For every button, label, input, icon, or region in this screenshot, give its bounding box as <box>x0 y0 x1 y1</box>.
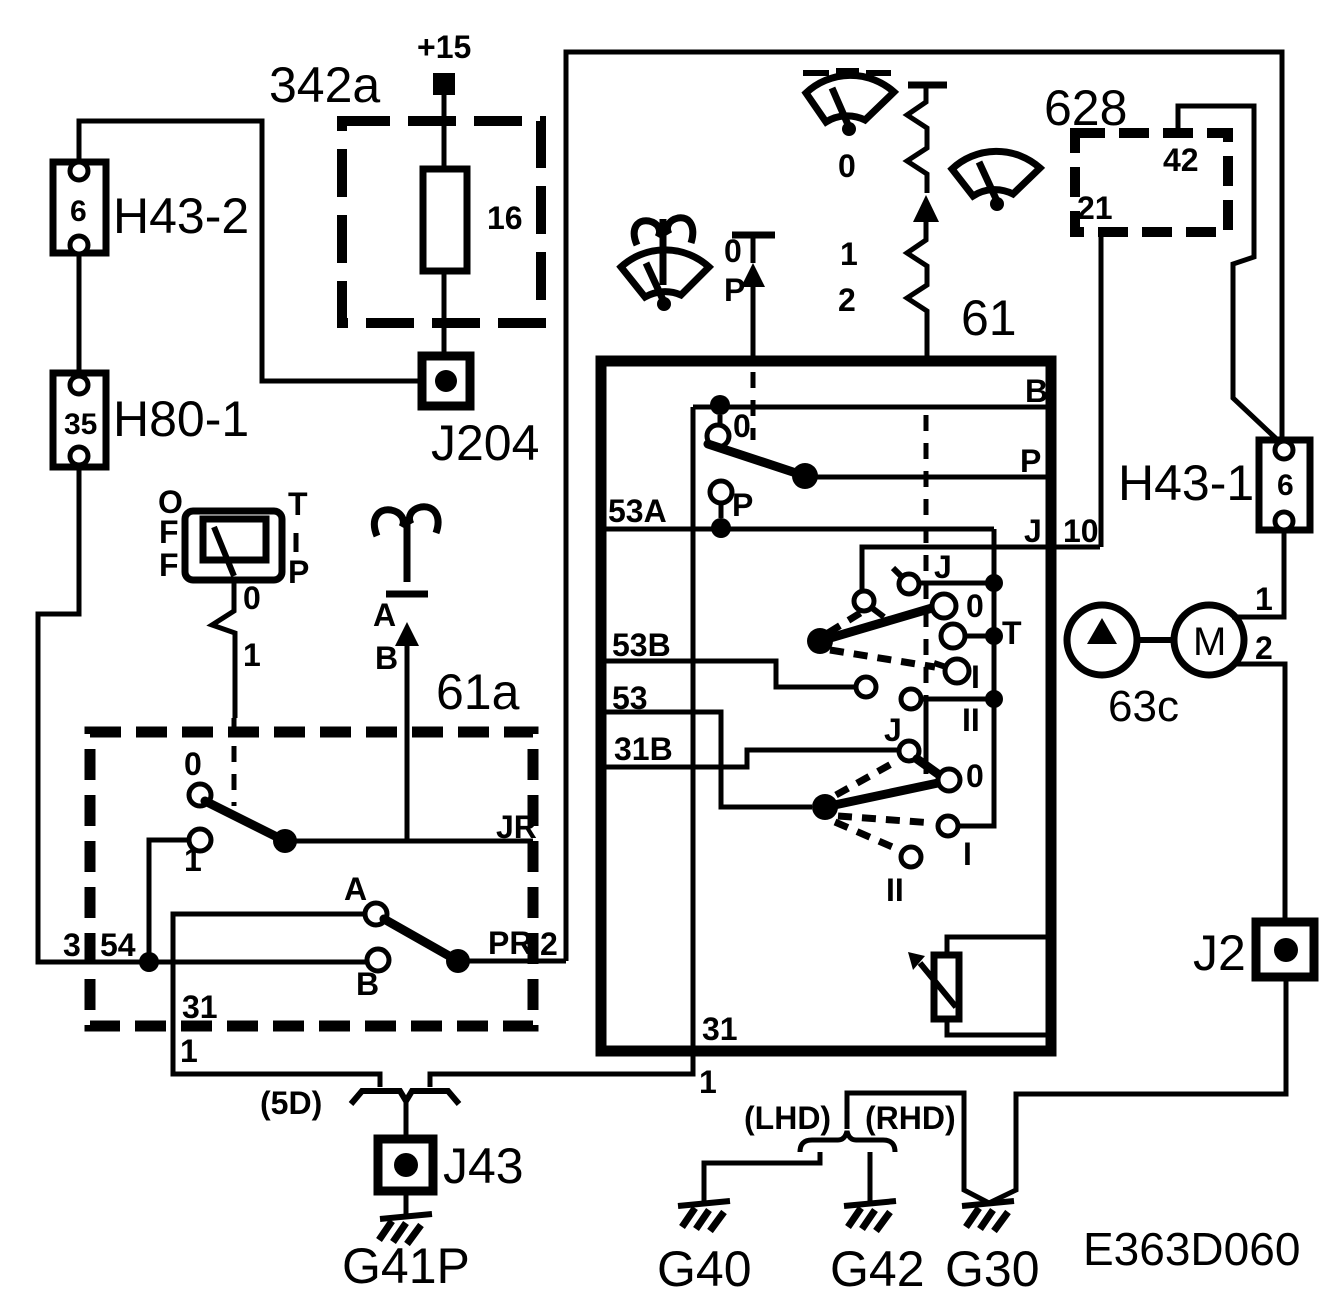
svg-text:P: P <box>288 554 309 590</box>
61a lower switch contact A <box>365 903 387 925</box>
row 53A <box>606 527 994 532</box>
61a upper switch contact 1 <box>189 829 211 851</box>
svg-text:2: 2 <box>838 282 856 318</box>
inline connector (5D) <box>260 1085 459 1121</box>
svg-text:342a: 342a <box>269 57 380 113</box>
fuse 16 <box>423 169 523 271</box>
dashed link into 61a <box>232 718 237 806</box>
lower switch pivot <box>812 794 838 820</box>
svg-text:PR: PR <box>488 925 532 961</box>
upper switch contact 0 <box>932 594 956 618</box>
wire H43-2 to H80-1 <box>77 253 82 373</box>
svg-text:G40: G40 <box>657 1241 752 1297</box>
svg-text:(RHD): (RHD) <box>865 1100 956 1136</box>
row B <box>693 405 1046 410</box>
row J to terminal 10 <box>862 547 1100 591</box>
upper switch contact I <box>945 659 969 683</box>
svg-text:0: 0 <box>966 588 984 624</box>
upper switch contact T <box>941 624 965 648</box>
park position line P with arrow <box>724 233 775 440</box>
connector H43-2 <box>53 162 249 254</box>
two-speed wiper symbol with dashes <box>803 71 894 318</box>
park switch contact 0 <box>707 425 729 447</box>
ground G41P <box>342 1214 470 1294</box>
lower switch lever to 0 <box>825 783 938 807</box>
svg-text:I: I <box>963 836 972 872</box>
row 53B <box>606 661 856 687</box>
svg-text:F: F <box>159 514 179 550</box>
relay box 61a <box>90 664 533 1026</box>
wire fuse to J204 <box>442 271 447 356</box>
pin 31 column <box>430 407 693 1087</box>
svg-text:J204: J204 <box>431 415 539 471</box>
lower switch dashed position toward I <box>838 816 933 823</box>
upper switch contact J <box>899 574 919 594</box>
svg-text:J43: J43 <box>443 1138 524 1194</box>
row 53 <box>606 712 812 807</box>
wire brace to ground G30 <box>847 1093 989 1203</box>
wire H80-1 down to node 54 row <box>38 467 140 962</box>
ground G42 <box>830 1201 925 1297</box>
61a wire contact1 to node 54 <box>149 840 189 962</box>
svg-text:JR: JR <box>496 809 537 845</box>
svg-text:21: 21 <box>1077 190 1113 226</box>
lower switch contact II <box>901 847 921 867</box>
61a lower switch contact B <box>367 949 389 971</box>
stalk switch OFF/T/P <box>158 484 309 590</box>
svg-text:0: 0 <box>724 233 742 269</box>
park switch B junction <box>710 395 730 415</box>
washer valve symbol A/B <box>373 507 438 841</box>
relay box 628 <box>1044 80 1228 232</box>
row P <box>805 475 1046 480</box>
61a JR line <box>285 839 533 844</box>
svg-text:A: A <box>373 597 396 633</box>
wire H43-1 to motor pin 1 <box>1232 530 1284 617</box>
single wiper symbol <box>952 151 1040 211</box>
park switch lever <box>708 444 796 473</box>
svg-text:6: 6 <box>1277 469 1294 502</box>
svg-text:B: B <box>375 640 398 676</box>
svg-text:A: A <box>344 871 367 907</box>
svg-text:E363D060: E363D060 <box>1083 1223 1300 1275</box>
svg-text:(LHD): (LHD) <box>744 1100 831 1136</box>
svg-text:B: B <box>356 966 379 1002</box>
upper switch dashed position toward I <box>830 650 935 667</box>
upper rotary switch wash/wipe selector <box>807 549 1022 738</box>
svg-text:53A: 53A <box>608 493 667 529</box>
lower switch contact J <box>899 741 919 761</box>
svg-text:T: T <box>1002 615 1022 651</box>
wire motor pin 2 to J2 <box>1232 664 1285 924</box>
svg-text:35: 35 <box>64 408 97 441</box>
svg-text:P: P <box>724 272 745 308</box>
svg-text:2: 2 <box>540 926 558 962</box>
svg-text:31: 31 <box>702 1011 738 1047</box>
contact rail <box>958 529 994 826</box>
61a lower lever to PR <box>384 919 458 961</box>
svg-text:II: II <box>886 872 904 908</box>
lower switch dashed position toward II <box>835 822 897 849</box>
61a PR output 2 <box>458 959 566 964</box>
61a row 54 line <box>38 960 367 965</box>
upper switch contact to J row <box>854 591 874 611</box>
wire H43-2 pin to J204 <box>79 121 422 381</box>
svg-text:0: 0 <box>966 758 984 794</box>
svg-text:P: P <box>1020 443 1041 479</box>
svg-text:J2: J2 <box>1193 925 1246 981</box>
svg-text:0: 0 <box>243 580 261 616</box>
lower switch contact I <box>938 816 958 836</box>
svg-text:628: 628 <box>1044 80 1127 136</box>
upper switch contact II <box>901 689 921 709</box>
svg-text:31B: 31B <box>614 731 673 767</box>
svg-text:J: J <box>1024 513 1042 549</box>
svg-text:F: F <box>159 547 179 583</box>
svg-text:0: 0 <box>838 148 856 184</box>
connector H43-1 <box>1118 440 1310 530</box>
svg-text:63c: 63c <box>1108 682 1179 731</box>
svg-text:1: 1 <box>1255 581 1273 617</box>
svg-text:1: 1 <box>243 637 261 673</box>
row 31B <box>606 750 898 767</box>
svg-text:1: 1 <box>184 842 202 878</box>
svg-text:0: 0 <box>733 408 751 444</box>
svg-text:P: P <box>732 487 753 523</box>
svg-text:J: J <box>884 712 902 748</box>
ground G40 <box>657 1201 752 1297</box>
upper switch pivot <box>807 628 833 654</box>
lower switch contact 0 <box>938 769 960 791</box>
svg-text:T: T <box>288 486 308 522</box>
svg-text:10: 10 <box>1063 513 1099 549</box>
svg-text:B: B <box>1025 373 1048 409</box>
svg-text:G30: G30 <box>945 1241 1040 1297</box>
svg-text:H43-2: H43-2 <box>113 188 249 244</box>
svg-text:16: 16 <box>487 200 523 236</box>
svg-text:53B: 53B <box>612 627 671 663</box>
svg-text:H80-1: H80-1 <box>113 391 249 447</box>
svg-text:1: 1 <box>840 236 858 272</box>
wiper switch unit box 61 <box>601 361 1051 1051</box>
wiper motor feed line with resistor and arrow <box>907 85 947 774</box>
svg-text:2: 2 <box>1255 630 1273 666</box>
svg-text:II: II <box>962 702 980 738</box>
svg-text:1: 1 <box>180 1033 198 1069</box>
junction J43 <box>378 1138 524 1194</box>
wire 2 up and across top to H43-1 <box>566 52 1282 961</box>
svg-text:I: I <box>971 659 980 695</box>
svg-text:54: 54 <box>100 927 136 963</box>
svg-text:J: J <box>934 549 952 585</box>
wash/wipe symbol <box>621 218 709 311</box>
wire +15 to fuse <box>442 95 447 169</box>
connector H80-1 <box>53 373 249 467</box>
svg-text:(5D): (5D) <box>260 1085 322 1121</box>
svg-text:G41P: G41P <box>342 1238 470 1294</box>
fuse box 342a <box>269 57 541 323</box>
junction J204 <box>422 356 539 471</box>
svg-text:3: 3 <box>63 927 81 963</box>
wire J2 to ground G30 <box>989 974 1286 1203</box>
svg-text:31: 31 <box>182 989 218 1025</box>
ground G30 <box>945 1201 1040 1297</box>
61a upper switch contact 0 <box>189 784 211 806</box>
svg-text:H43-1: H43-1 <box>1118 455 1254 511</box>
svg-text:1: 1 <box>699 1064 717 1100</box>
svg-text:61a: 61a <box>436 664 520 720</box>
svg-text:M: M <box>1193 620 1226 664</box>
61a A row line <box>173 914 380 1087</box>
lower switch dashed position toward J <box>836 763 893 795</box>
rheostat <box>908 937 1046 1035</box>
lower rotary switch wiper speed selector <box>812 712 984 908</box>
connector brace LHD/RHD <box>744 1100 956 1152</box>
upper switch lever to 0 <box>820 608 932 641</box>
wire brace to G40 <box>704 1152 820 1201</box>
wire to J43 <box>404 1101 409 1139</box>
svg-text:42: 42 <box>1163 142 1199 178</box>
61a upper lever to JR <box>205 801 285 841</box>
svg-text:53: 53 <box>612 680 648 716</box>
wire brace to G42 <box>868 1152 873 1201</box>
park contact P <box>710 481 732 503</box>
rail junction dots <box>985 574 1003 592</box>
upper switch dashed position toward J <box>828 612 862 633</box>
wire 628 pin42 to H43-1 <box>1178 106 1284 446</box>
supply +15 terminal <box>417 29 471 95</box>
wire J43 to ground <box>404 1191 409 1216</box>
svg-text:G42: G42 <box>830 1241 925 1297</box>
washer pump 63c <box>1067 605 1244 731</box>
wire stalk switch down with kink <box>212 580 235 718</box>
svg-text:0: 0 <box>184 746 202 782</box>
svg-text:+15: +15 <box>417 29 471 65</box>
svg-text:61: 61 <box>961 290 1017 346</box>
wire 628 pin21 down to 10 <box>1099 232 1104 547</box>
svg-text:6: 6 <box>70 195 87 228</box>
junction J2 <box>1193 922 1314 981</box>
